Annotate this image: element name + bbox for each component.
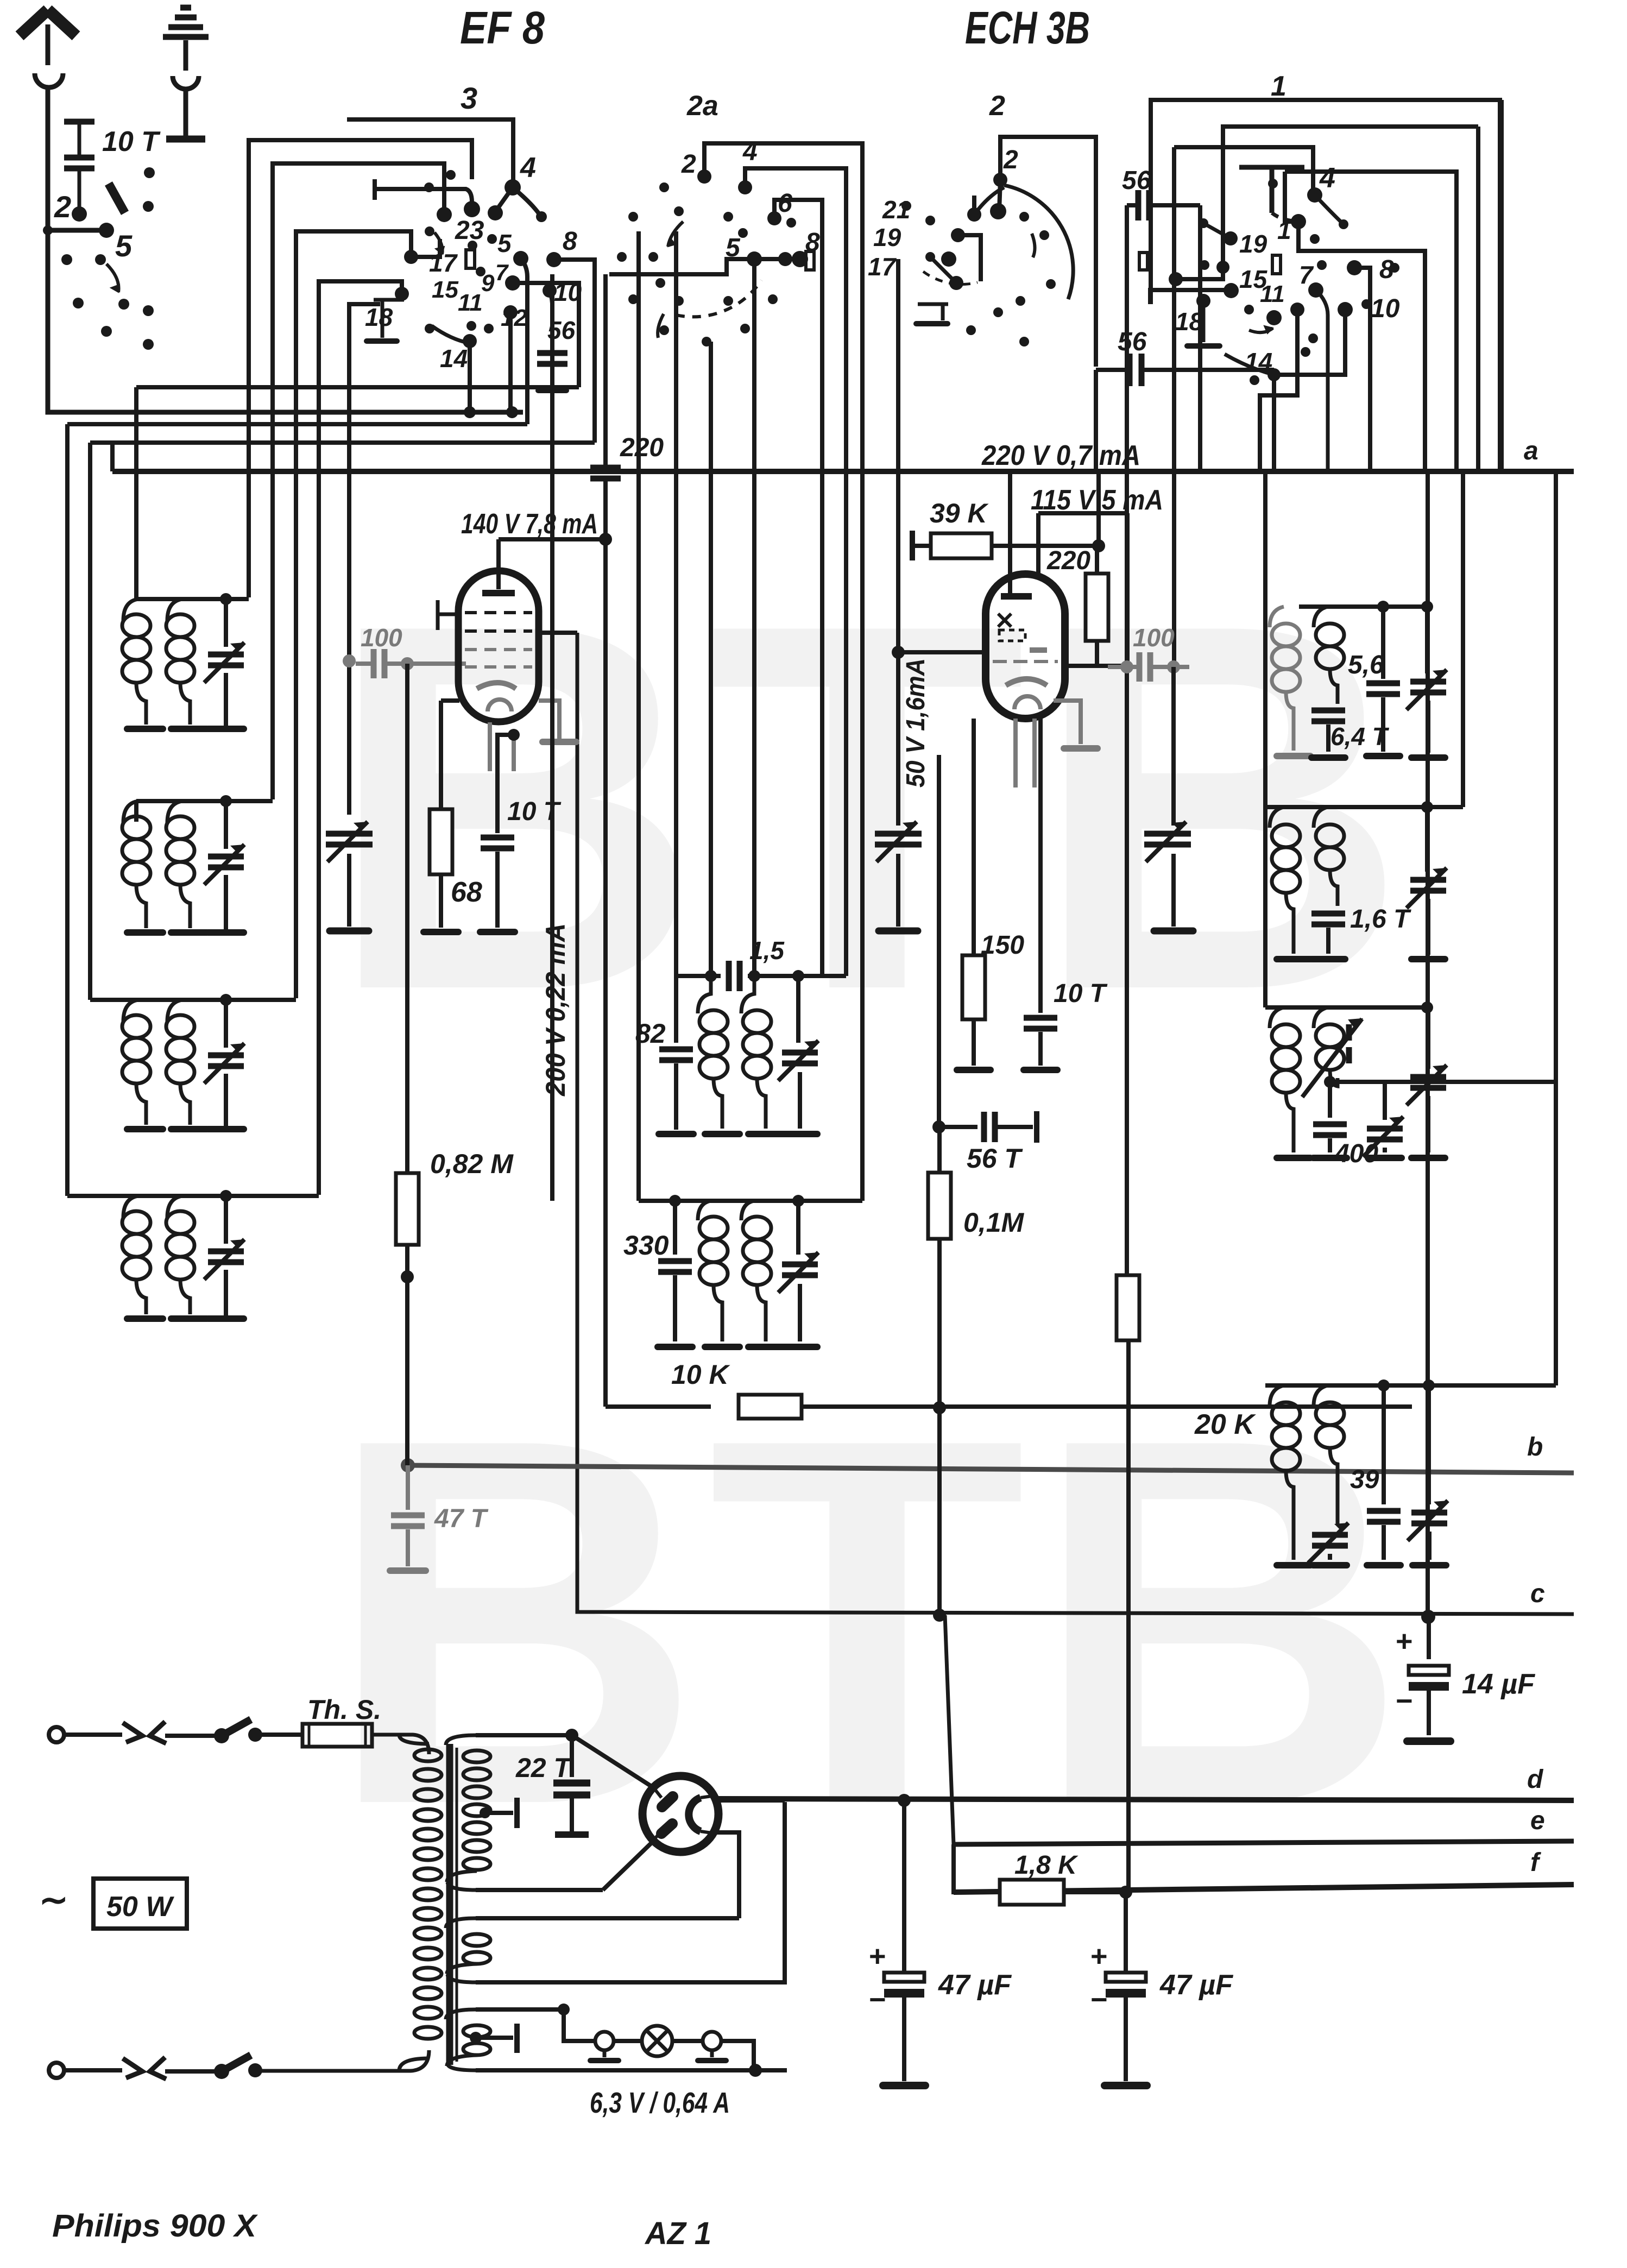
svg-text:100: 100	[361, 623, 402, 652]
capacitor 220	[590, 468, 621, 478]
trimmer R2	[1425, 807, 1429, 872]
wafer1 ring dots	[1268, 179, 1278, 188]
wire wafer3 loop c	[296, 231, 411, 998]
svg-text:56: 56	[1118, 327, 1147, 356]
trimmer R4 coil	[1312, 1535, 1348, 1546]
svg-text:17: 17	[868, 253, 897, 281]
wire EF8 cathode to c-bus	[577, 633, 1574, 1614]
coil R2 secondary	[1314, 807, 1328, 828]
wafer1 blade 14 arc	[1225, 354, 1274, 375]
bus a	[112, 469, 1574, 474]
svg-text:0,82 M: 0,82 M	[430, 1149, 514, 1179]
svg-text:400: 400	[1334, 1139, 1378, 1168]
switch S1 rotation arrow	[106, 264, 119, 292]
wire wafer2a contact 4 loop	[745, 168, 846, 976]
bus e	[954, 1841, 1574, 1844]
capacitor 5,6	[1381, 607, 1385, 679]
svg-text:4: 4	[742, 137, 758, 166]
wire M2 rail	[639, 1199, 862, 1203]
wire lower to transformer	[255, 2050, 429, 2071]
wire wafer2a contact 5-8 bar	[609, 259, 800, 274]
tube V1 EF8 envelope	[458, 571, 539, 722]
svg-text:6: 6	[778, 189, 792, 218]
wire fuse to transformer	[372, 1735, 429, 1754]
wire R1 primary top	[1282, 604, 1286, 609]
trimmer M1	[796, 976, 800, 1043]
tube V2 grid side lead	[898, 650, 986, 654]
svg-text:56: 56	[1122, 166, 1151, 195]
transformer core	[446, 1744, 453, 2065]
resistor 1,8K	[954, 1844, 999, 1892]
svg-text:5,6: 5,6	[1348, 651, 1384, 679]
svg-text:2: 2	[989, 90, 1005, 122]
svg-text:5: 5	[726, 234, 741, 262]
wire AZ1 to d bus	[719, 1798, 785, 1803]
wire M1 rail with cap 1,5	[676, 974, 721, 978]
node junction on rail	[464, 406, 476, 418]
wire antenna lead down	[46, 88, 51, 230]
svg-text:e: e	[1530, 1806, 1545, 1835]
wire mains upper	[64, 1732, 122, 1737]
bus f	[954, 1885, 1574, 1892]
node wafer3 contact 9	[505, 275, 520, 291]
svg-text:10: 10	[554, 278, 582, 306]
node antenna junction	[43, 225, 53, 235]
wire mains lower	[64, 2068, 122, 2072]
wafer2 ground	[918, 304, 948, 320]
wire wafer1 loop from 10	[1274, 310, 1345, 375]
node b feed	[401, 1458, 415, 1472]
wire wafer1 loop from 8	[1354, 268, 1370, 471]
wire grid return x750	[405, 664, 409, 1173]
svg-text:7: 7	[1299, 261, 1314, 289]
node c-bus junctions	[933, 1609, 946, 1622]
mains terminal upper	[49, 1727, 64, 1742]
capacitor 47uF second	[1124, 1892, 1128, 1971]
node wafer3 contact 5	[513, 251, 528, 266]
coil R3 secondary adjustable	[1314, 1007, 1328, 1028]
IF transformer group D rail	[67, 1194, 319, 1198]
coil R1 secondary	[1314, 607, 1328, 627]
wire 100 to EF8 grid	[434, 661, 466, 666]
earth symbol	[163, 8, 209, 37]
coil secondary	[167, 801, 182, 823]
wafer1 common tie bar	[1239, 167, 1304, 213]
capacitor 82	[659, 1049, 693, 1060]
resistor 39K	[910, 531, 915, 560]
svg-text:EF 8: EF 8	[460, 2, 545, 53]
wire wafer1 loop from 1	[1298, 222, 1425, 471]
osc coil group R2 rail	[1265, 805, 1463, 809]
wire wafer2 21 loop	[972, 196, 976, 215]
wire wafer2a contact 6 loop	[774, 200, 822, 976]
wafer3 ground 18	[374, 300, 404, 338]
coil R1 primary gray	[1270, 607, 1284, 627]
svg-text:100: 100	[1133, 623, 1175, 652]
capacitor 330	[658, 1261, 692, 1272]
wire wafer3 loop b	[273, 163, 444, 799]
svg-text:8: 8	[1379, 255, 1394, 284]
svg-text:5: 5	[115, 229, 133, 263]
svg-text:19: 19	[1239, 230, 1267, 258]
svg-text:23: 23	[455, 216, 484, 245]
node wafer3 contact 10	[543, 283, 557, 298]
wire riser 2694 to wafer1	[1461, 471, 1465, 607]
svg-text:10: 10	[1371, 294, 1400, 323]
wire wafer1 elbow 15	[1176, 267, 1223, 279]
wire wafer3 8 loop	[554, 260, 595, 443]
svg-text:+: +	[869, 1940, 886, 1973]
wire c to e link	[945, 1615, 954, 1844]
wire wafer2 contact2 drop	[999, 180, 1000, 211]
svg-text:7: 7	[495, 260, 509, 285]
wire AZ1 output loop	[717, 1832, 739, 1918]
svg-text:11: 11	[458, 289, 483, 316]
plug break lower	[123, 2058, 142, 2078]
wafer2 dashed arc	[923, 272, 978, 284]
wafer1 blade 4	[1315, 195, 1344, 224]
switch wafer3 index mark	[466, 250, 475, 268]
wire wafer1 loop 2	[1174, 147, 1313, 195]
svg-text:200 V 0,22 mA: 200 V 0,22 mA	[540, 923, 571, 1097]
resistor 150	[972, 719, 976, 956]
capacitor 1,6T	[1311, 913, 1345, 924]
tube V1 side pin	[538, 631, 577, 635]
wire 0,82M branch	[405, 1245, 409, 1465]
resistor 20K	[1117, 1275, 1139, 1340]
svg-text:Philips 900 X: Philips 900 X	[52, 2208, 258, 2244]
svg-text:8: 8	[563, 227, 577, 256]
wire triode grid drop	[1008, 471, 1012, 596]
wire 50V line	[896, 259, 900, 652]
wire anode diagonal	[572, 1735, 652, 1787]
transformer 6,3V secondary	[476, 2007, 564, 2012]
HT center tap ground	[480, 1807, 490, 1818]
capacitor 14uF electrolytic	[1427, 1617, 1431, 1659]
wafer2 blade 17	[930, 257, 956, 283]
wire 14uF feed column	[1426, 471, 1430, 1617]
wire wafer3 9 loop	[513, 283, 579, 387]
svg-text:a: a	[1524, 437, 1538, 465]
wire left column outer loop	[65, 424, 70, 1196]
node switch contact 5	[99, 223, 114, 238]
capacitor 100 ECH grid gray	[1139, 652, 1150, 682]
svg-text:220 V 0,7 mA: 220 V 0,7 mA	[981, 440, 1140, 471]
node wafer3 lower contacts	[395, 287, 409, 301]
wire group B left feed	[134, 801, 138, 822]
svg-text:50 W: 50 W	[106, 1891, 174, 1923]
wafer2a index mark	[806, 251, 814, 270]
node wafer1 contacts	[1307, 187, 1322, 203]
bus b	[408, 1465, 1574, 1473]
svg-text:BTB: BTB	[326, 516, 1414, 1098]
svg-text:ECH 3B: ECH 3B	[965, 2, 1090, 53]
node wafer3 contact 12	[503, 305, 518, 319]
big tuning cap osc right	[1171, 667, 1176, 826]
wire riser 2330 to a	[1263, 471, 1267, 807]
antenna symbol	[46, 24, 51, 65]
svg-text:11: 11	[1260, 281, 1285, 307]
coil secondary	[167, 1196, 182, 1218]
trimmer R3 mid	[1383, 1082, 1387, 1120]
wire 56 drop to a-bus	[1094, 370, 1098, 471]
svg-text:c: c	[1530, 1579, 1545, 1608]
tube V3 filament pin upper	[653, 1787, 661, 1798]
svg-text:0,1M: 0,1M	[963, 1207, 1025, 1238]
wire wafer3 14 drop	[468, 341, 472, 412]
tube V2 cathode	[1006, 679, 1047, 685]
node junction on rail 2	[506, 406, 518, 418]
svg-text:18: 18	[365, 303, 393, 331]
IF transformer group C rail	[90, 998, 296, 1002]
capacitor 47T	[406, 1465, 410, 1510]
wire wafer3 5 drop	[521, 259, 527, 424]
svg-text:39 K: 39 K	[930, 498, 989, 528]
wire 115V loop	[1038, 511, 1127, 515]
wafer3 common tie bar	[375, 179, 472, 202]
lamp terminal right	[703, 2032, 721, 2050]
svg-text:150: 150	[981, 931, 1024, 960]
capacitor 100 EF8 grid	[374, 649, 384, 678]
node switch contact 2	[72, 206, 87, 222]
coil R4 secondary	[1314, 1385, 1328, 1406]
wire wafer1 loop 15	[1150, 290, 1231, 304]
svg-text:10 K: 10 K	[671, 1359, 731, 1390]
svg-text:47 T: 47 T	[434, 1504, 489, 1533]
wire wafer3 loop e to tuning cap	[349, 304, 380, 815]
svg-text:4: 4	[1319, 162, 1335, 194]
node wafer2 contacts	[967, 207, 981, 222]
wafer3 blade 4 right	[513, 187, 540, 216]
osc coil group R1 rail	[1299, 604, 1427, 609]
node R3 tap	[1324, 1076, 1336, 1088]
wire group A top loop	[134, 387, 138, 599]
svg-text:50 V 1,6mA: 50 V 1,6mA	[901, 658, 930, 787]
wire M1 rail riser left	[674, 231, 678, 976]
trimmer R3 right	[1426, 1007, 1430, 1069]
svg-text:10 T: 10 T	[1054, 979, 1108, 1008]
svg-text:12: 12	[501, 305, 527, 331]
wire wafer3 loop a	[249, 140, 472, 597]
wire ECH cathode bundle	[937, 755, 941, 1127]
wire wafer3 10 hook	[550, 291, 552, 348]
svg-text:220: 220	[1046, 546, 1090, 575]
capacitor 6,4T	[1311, 710, 1345, 721]
svg-text:2a: 2a	[686, 90, 718, 122]
bus d	[717, 1799, 1574, 1800]
switch mains upper	[214, 1728, 229, 1743]
wire wafer2 contact2 loop	[1000, 137, 1096, 367]
resistor 0,1M	[937, 1127, 942, 1172]
svg-text:2: 2	[681, 150, 696, 179]
svg-text:−: −	[869, 1983, 886, 2016]
capacitor 10T antenna coupling	[64, 119, 94, 125]
wafer1 index mark	[1272, 255, 1281, 274]
wire wafer1 loop from 7	[1316, 290, 1328, 471]
svg-text:4: 4	[520, 152, 536, 184]
wire left column inner loop	[88, 443, 92, 1000]
wafer3 blade 4 left	[495, 187, 513, 212]
tube V2 anode	[1001, 593, 1032, 600]
svg-text:1: 1	[1271, 71, 1287, 102]
svg-text:AZ 1: AZ 1	[644, 2216, 711, 2251]
wafer1 rotation arrow	[1249, 328, 1273, 332]
wire wafer2 19 loop	[958, 235, 981, 281]
node wafer3 contact 14	[463, 334, 477, 348]
svg-text:+: +	[1090, 1940, 1108, 1973]
svg-text:2: 2	[1003, 146, 1018, 174]
tube V1 pins gray	[488, 722, 492, 771]
wire to switch upper	[165, 1734, 217, 1738]
wire M2 left drop	[673, 1201, 677, 1255]
resistor 220 screen	[1095, 546, 1099, 574]
osc coil group R4 rail	[1265, 1383, 1556, 1388]
tube V1 ground gray	[539, 701, 559, 739]
svg-text:330: 330	[623, 1230, 669, 1261]
coil M1 primary	[698, 976, 711, 1013]
node wafer2a contacts	[697, 169, 711, 184]
wire to switch lower	[165, 2069, 217, 2074]
capacitor 39	[1382, 1385, 1386, 1504]
tube V3 filament pin lower	[653, 1831, 661, 1841]
coil R3 primary	[1270, 1007, 1284, 1028]
node wafer3 contact 23	[464, 201, 480, 217]
capacitor 400	[1328, 1082, 1332, 1118]
svg-text:+: +	[1396, 1625, 1413, 1658]
wire wafer3 12 drop	[508, 312, 513, 412]
svg-text:14: 14	[440, 344, 468, 373]
wafer2a ring dots	[659, 182, 669, 192]
wafer1 ground 18	[1202, 304, 1206, 342]
wire cathode diagonal lower	[603, 1841, 653, 1890]
trimmer capacitor	[224, 801, 228, 849]
tube V1 grids	[465, 611, 532, 614]
svg-text:39: 39	[1350, 1465, 1379, 1494]
svg-text:68: 68	[451, 877, 482, 908]
IF transformer group A rail	[136, 597, 249, 601]
wire wafer3 17 link	[411, 239, 440, 257]
svg-text:82: 82	[635, 1018, 666, 1049]
6,3V winding tap ground	[470, 2032, 482, 2044]
lamp terminal left	[595, 2032, 614, 2050]
svg-text:47 µF: 47 µF	[938, 1969, 1012, 2001]
node wafer3 contact 4	[505, 179, 521, 196]
wire 2a loop drop x1176	[636, 231, 641, 1201]
svg-text:140 V 7,8 mA: 140 V 7,8 mA	[461, 508, 598, 540]
wire antenna to contact 5	[48, 228, 106, 233]
svg-text:6,4 T: 6,4 T	[1330, 722, 1390, 751]
wire switch to fuse	[255, 1732, 302, 1737]
wafer3 ring dots	[424, 182, 434, 192]
transformer 4V secondary	[476, 1916, 739, 1920]
tube V2 ECH3B envelope	[986, 574, 1065, 719]
svg-text:5: 5	[497, 229, 512, 257]
svg-text:17: 17	[429, 249, 458, 277]
svg-text:220: 220	[620, 433, 664, 462]
svg-text:b: b	[1527, 1433, 1543, 1461]
coil primary	[123, 1000, 138, 1022]
switch mains lower	[214, 2064, 229, 2079]
trimmer capacitor	[224, 599, 228, 647]
wire wafer1 loop 3	[1285, 172, 1456, 471]
wire wafer3 contact8 long drop	[550, 274, 554, 1201]
tube V2 pins gray	[1013, 719, 1018, 787]
capacitor 56 wafer3	[537, 353, 567, 364]
svg-text:15: 15	[432, 276, 458, 303]
coil primary	[123, 801, 138, 823]
node wafer2 contact 2	[993, 173, 1007, 187]
wire a-bus left hook	[110, 443, 115, 471]
svg-text:47 µF: 47 µF	[1159, 1969, 1233, 2001]
svg-text:22 T: 22 T	[515, 1753, 573, 1783]
transformer primary winding	[399, 1735, 429, 1744]
wire EF8 internal to 68	[441, 698, 459, 703]
box 50W	[93, 1879, 187, 1929]
wire riser 2865 top	[1554, 471, 1558, 1082]
svg-text:−: −	[1090, 1983, 1108, 2016]
trimmer capacitor	[224, 1000, 228, 1048]
svg-text:1,6 T: 1,6 T	[1350, 905, 1411, 934]
coil primary	[123, 1196, 138, 1218]
trimmer M2	[796, 1201, 800, 1255]
tube V3 cathode crescent	[689, 1798, 701, 1831]
wire lamp link 2	[672, 2039, 703, 2043]
wire coil M1 secondary riser	[752, 259, 756, 976]
svg-text:Th. S.: Th. S.	[307, 1694, 381, 1725]
osc coil group R3 rail	[1265, 1005, 1427, 1010]
capacitor 56 ECH	[1138, 190, 1149, 220]
wire R3 tap rail	[1330, 1080, 1556, 1084]
wire x1115 drop	[603, 274, 608, 466]
wafer2 ring dots	[901, 201, 911, 211]
wire wafer3 top loop to contact 4	[347, 119, 513, 184]
switch S1 wafer rotor blade	[109, 184, 125, 213]
core adjust marks R3	[1346, 1024, 1352, 1063]
tube V2 internal dashes	[998, 614, 1011, 627]
tube V2 ground gray	[1054, 701, 1081, 744]
svg-text:6,3 V / 0,64 A: 6,3 V / 0,64 A	[590, 2087, 730, 2119]
wire wafer1 tier 233 loop	[1223, 127, 1478, 267]
wire 4V bottom lead	[476, 1802, 785, 1982]
coil M2 primary	[698, 1201, 711, 1220]
tube V1 grid cap lead	[438, 600, 459, 630]
wafer2a rotor dashed arc	[676, 280, 761, 317]
wire HT bottom lead	[476, 1888, 603, 1892]
svg-text:20 K: 20 K	[1194, 1409, 1256, 1440]
wire wafer1 loop from 11	[1260, 310, 1297, 471]
coil M1 secondary	[741, 976, 754, 1013]
capacitor 10T cathode	[497, 735, 514, 833]
wafer3 rotation arrow	[434, 232, 443, 254]
wire lamp return	[721, 2041, 754, 2070]
wire wafer2a loop top	[704, 143, 862, 1201]
svg-text:1,8 K: 1,8 K	[1014, 1851, 1079, 1880]
trimmer R4 right	[1427, 1385, 1431, 1504]
wire oscillator line	[347, 661, 351, 815]
svg-text:∼: ∼	[39, 1880, 68, 1919]
wire wafer1 contact14 drop	[1272, 375, 1276, 471]
capacitor 56 wafer1	[1096, 368, 1127, 372]
wire lamp link 1	[614, 2039, 642, 2043]
wire coil M1 primary riser	[709, 342, 713, 976]
tube V1 cathode	[477, 683, 516, 689]
node wafer3 contact 17	[437, 207, 452, 222]
svg-text:14 µF: 14 µF	[1462, 1668, 1535, 1700]
coil primary	[123, 599, 138, 621]
wafer2 rotor blade	[974, 187, 1004, 215]
wire right risers	[1263, 807, 1267, 1007]
variable tuning capacitor C-gang	[326, 834, 373, 845]
